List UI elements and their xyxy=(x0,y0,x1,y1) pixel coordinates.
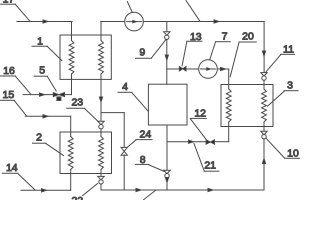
check valve 22 xyxy=(98,176,104,180)
pipe down to valve 24 xyxy=(123,113,125,148)
label 20 leader xyxy=(230,42,239,76)
pipe check valve 11 to HX3 right coil xyxy=(263,80,265,84)
svg-text:14: 14 xyxy=(6,162,18,174)
label 8 leader xyxy=(149,165,164,172)
flow arrow down below check valve 8 xyxy=(165,178,168,183)
wire 16 with valve 5 to HX1 left coil xyxy=(23,94,53,96)
tee wire to valve 13 xyxy=(167,68,179,70)
svg-text:24: 24 xyxy=(140,129,152,141)
svg-text:15: 15 xyxy=(3,89,15,101)
heat exchanger 2 right coil xyxy=(100,132,102,137)
heat exchanger 2 left coil xyxy=(70,132,72,137)
svg-text:3: 3 xyxy=(287,80,293,92)
pipe check valve 23 to HX2 right coil xyxy=(100,129,102,132)
flow arrow down on HX1 right drop xyxy=(99,97,102,102)
svg-text:21: 21 xyxy=(204,160,216,172)
label 2 underline xyxy=(33,142,47,144)
label 20 underline xyxy=(239,41,256,43)
wire junction to valve 12 xyxy=(167,141,206,143)
pump 7 circle xyxy=(199,60,218,79)
label 16 underline xyxy=(0,75,16,77)
pipe vessel 4 bottom to junction xyxy=(166,125,168,142)
pipe pump outlet down to HX3 left coil xyxy=(228,69,230,85)
flow arrow bottom wire right xyxy=(208,188,213,191)
label 16 leader xyxy=(16,76,31,94)
svg-text:23: 23 xyxy=(71,97,83,109)
pipe HX1 left coil down to valve 5 wire xyxy=(71,79,73,94)
check valve 8 xyxy=(164,170,170,174)
heat exchanger 1 left coil xyxy=(71,35,73,41)
pipe HX2 right coil to check valve 22 xyxy=(100,174,102,177)
pump 7 internal arrow xyxy=(201,68,216,70)
label 17 leader xyxy=(15,4,30,21)
label 13 leader xyxy=(182,42,187,66)
label 24 underline xyxy=(136,139,152,141)
label 3 leader xyxy=(268,91,285,106)
heat exchanger 3 right coil xyxy=(263,85,265,90)
svg-text:2: 2 xyxy=(36,132,42,144)
flow arrow pump 7 outlet xyxy=(221,67,226,70)
pump internal arrow xyxy=(127,21,142,23)
svg-text:12: 12 xyxy=(194,108,206,120)
pipe HX3 left coil down to wire 21 corner xyxy=(228,127,230,142)
label 7 underline xyxy=(216,41,231,43)
flow arrow on wire 16 xyxy=(40,93,45,96)
label 1 leader xyxy=(48,47,62,61)
label 15 leader xyxy=(14,101,26,116)
pipe tee down to vessel 4 xyxy=(166,69,168,84)
label 10 leader xyxy=(266,138,285,158)
check valve 23 xyxy=(98,121,104,125)
pipe top wire down to check valve 9 xyxy=(166,22,168,32)
pipe HX1 right coil up to top wire xyxy=(100,22,102,36)
wire 14 to HX2 left coil bottom xyxy=(21,189,71,191)
pipe check valve 9 to tee xyxy=(166,39,168,69)
label 5 underline xyxy=(34,75,47,77)
label 2 leader xyxy=(46,144,64,156)
flow arrow on top wire xyxy=(214,20,219,23)
valve 24 body xyxy=(121,147,127,151)
pipe check valve 22 to bottom wire xyxy=(100,184,102,190)
pump circle top xyxy=(125,12,144,31)
branch wire junction to valve 24 drop xyxy=(101,112,124,114)
top wire to right side xyxy=(143,21,264,23)
pipe check valve 10 to bottom wire xyxy=(263,139,265,190)
pipe wire17 corner down to HX1 left coil xyxy=(71,22,73,36)
pipe HX1 right coil down to junction xyxy=(100,79,102,121)
valve 5 actuator square xyxy=(57,97,61,101)
label 24 leader xyxy=(127,140,136,148)
wire 15 to HX2 left coil top xyxy=(25,115,70,117)
label 8 underline xyxy=(135,163,149,165)
label 1 underline xyxy=(32,45,48,47)
check valve 10 xyxy=(261,131,267,135)
pipe top wire down to check valve 11 xyxy=(263,22,265,73)
label 21 underline xyxy=(204,170,219,172)
label 11 leader xyxy=(266,55,281,73)
label 9 leader xyxy=(151,40,166,59)
flow arrow bottom wire left xyxy=(136,188,141,191)
leader to top pump (label cut off) xyxy=(127,2,132,13)
svg-text:11: 11 xyxy=(283,44,294,56)
pipe HX3 right coil to check valve 10 xyxy=(263,127,265,132)
label 5 leader xyxy=(47,77,56,91)
label 9 underline xyxy=(136,57,152,59)
flow arrow before valve 12 xyxy=(189,140,194,143)
label 14 leader xyxy=(18,174,35,190)
svg-text:4: 4 xyxy=(122,81,128,93)
pipe wire15 down to HX2 left coil xyxy=(70,116,72,132)
leader to cut label at bottom centre xyxy=(144,190,156,199)
flow arrow on wire 15 xyxy=(43,115,48,118)
label 22 leader xyxy=(83,184,98,196)
heat exchanger 1 shell xyxy=(60,35,111,79)
label 15 underline xyxy=(0,99,14,101)
valve 13 body xyxy=(179,67,182,71)
label 12 leader xyxy=(190,119,206,140)
flow arrow on wire 14 xyxy=(42,189,47,192)
label 13 underline xyxy=(187,40,202,42)
wire valve 12 to HX3 left coil drop xyxy=(215,141,229,143)
pump 7 outlet wire xyxy=(217,68,228,70)
svg-text:22: 22 xyxy=(71,195,83,200)
pipe HX2 left coil down to wire 14 xyxy=(70,174,72,191)
heat exchanger 1 right coil xyxy=(100,35,102,41)
label 12 underline xyxy=(190,117,206,119)
label 21 leader xyxy=(194,144,204,171)
leader from cut label to top wire xyxy=(186,1,200,22)
svg-text:5: 5 xyxy=(39,65,45,77)
wire valve 13 to pump 7 xyxy=(186,68,198,70)
label 17 underline xyxy=(1,3,16,5)
svg-text:20: 20 xyxy=(242,30,254,42)
label 10 underline xyxy=(285,157,301,159)
bottom collecting wire xyxy=(102,189,264,191)
svg-text:7: 7 xyxy=(222,30,228,42)
label 11 underline xyxy=(281,53,295,55)
pipe junction down to check valve 8 xyxy=(166,142,168,171)
svg-text:16: 16 xyxy=(3,65,15,77)
label 14 underline xyxy=(2,172,18,174)
label 23 underline xyxy=(67,107,85,109)
label 4 underline xyxy=(118,91,132,93)
valve 5 body xyxy=(53,93,59,97)
label 3 underline xyxy=(284,90,298,92)
label 23 leader xyxy=(85,109,98,122)
flow arrow up to check valve 10 xyxy=(262,159,265,164)
check valve 9 xyxy=(164,32,170,36)
pipe check valve 8 to bottom wire xyxy=(166,178,168,190)
flow arrow on wire 17 xyxy=(43,20,48,23)
check valve 11 xyxy=(261,73,267,77)
label 4 leader xyxy=(132,93,148,111)
heat exchanger 3 left coil xyxy=(228,85,230,90)
wire 17 inlet top-left xyxy=(17,21,72,23)
valve 12 body xyxy=(206,140,210,144)
pipe valve 24 to bottom wire xyxy=(123,155,125,190)
flow arrow down on right drop xyxy=(262,51,265,56)
flow arrow down above tee xyxy=(165,55,168,60)
svg-text:17: 17 xyxy=(3,0,15,6)
svg-text:9: 9 xyxy=(139,47,145,59)
heat exchanger 3 shell xyxy=(221,85,273,127)
heat exchanger 2 shell xyxy=(60,132,112,174)
vessel 4 box xyxy=(148,84,187,125)
label 7 leader xyxy=(210,42,216,60)
wire HX1 right coil to pump circle xyxy=(101,21,125,23)
